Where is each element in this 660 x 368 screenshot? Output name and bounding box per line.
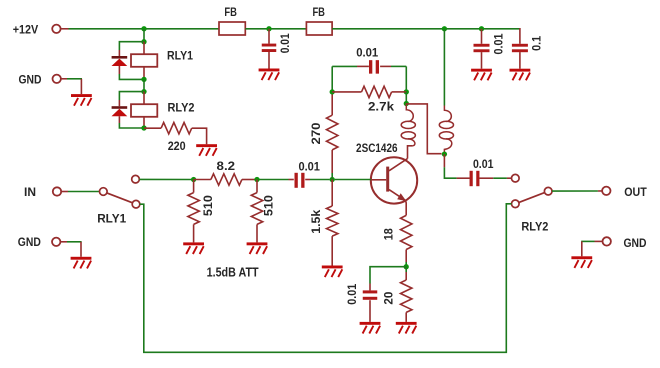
- wire rail right section: [332, 28, 520, 30]
- relay coil RLY1: [131, 54, 157, 67]
- ground C1: [259, 69, 280, 81]
- wire R8 lead top: [405, 272, 407, 280]
- wire emitter node: [405, 262, 407, 267]
- wire R6 lead right: [392, 91, 407, 93]
- ground GND top: [71, 94, 92, 106]
- svg-text:510: 510: [262, 195, 276, 216]
- wire C2 lead top: [481, 29, 483, 44]
- node OUT terminal: [602, 187, 610, 195]
- svg-text:OUT: OUT: [624, 185, 647, 199]
- resistor R3 510: [188, 193, 199, 225]
- relay switch RLY1 arm: [107, 193, 133, 203]
- wire RLY1 coil pin top: [143, 42, 145, 55]
- wire R9 lead top: [331, 180, 333, 207]
- resistor R5 270: [327, 115, 338, 150]
- wire C7 lead left: [457, 177, 470, 179]
- wire C6 lead top: [369, 284, 371, 291]
- wire D2 bottom pin: [118, 116, 120, 123]
- ground R1: [196, 144, 217, 156]
- svg-text:RLY1: RLY1: [167, 48, 193, 62]
- junction attenuator in: [191, 177, 196, 182]
- svg-text:0.01: 0.01: [278, 33, 292, 53]
- svg-text:2SC1426: 2SC1426: [356, 143, 398, 155]
- junction output tap Y: [442, 151, 447, 156]
- wire GND bl stub: [60, 241, 67, 243]
- resistor R8 20: [401, 280, 412, 312]
- capacitor C7 0.01: [470, 171, 480, 186]
- ferrite bead FB2: [306, 22, 332, 35]
- wire tap Y down red: [443, 154, 445, 167]
- svg-text:0.01: 0.01: [492, 33, 506, 54]
- svg-text:GND: GND: [18, 235, 41, 249]
- wire feedback left rail: [331, 66, 333, 92]
- wire C7 lead right: [479, 177, 493, 179]
- junction feedback right: [404, 89, 409, 94]
- svg-text:RLY2: RLY2: [521, 220, 548, 234]
- wire D2 bottom branch: [119, 123, 144, 128]
- inductor L2: [439, 106, 453, 155]
- svg-text:1.5k: 1.5k: [309, 209, 323, 233]
- relay switch RLY1 contact bypass: [132, 200, 140, 208]
- ground C3: [510, 69, 531, 81]
- wire RLY1-RLY2: [143, 79, 145, 91]
- wire GND top drop: [80, 79, 82, 94]
- wire C2 lead bottom: [481, 52, 483, 69]
- capacitor C2 0.01: [474, 44, 490, 52]
- resistor R6 2.7k: [362, 86, 392, 97]
- wire feedback right rail: [405, 66, 407, 92]
- ground C2: [471, 69, 492, 81]
- junction rail/choke: [442, 26, 447, 31]
- junction emitter node: [404, 264, 409, 269]
- wire feedback top right: [391, 65, 406, 67]
- svg-text:RLY2: RLY2: [168, 100, 195, 114]
- wire tap Y down green: [444, 167, 456, 178]
- junction bypass cap C1: [266, 26, 271, 31]
- diode D1: [112, 56, 128, 66]
- svg-text:220: 220: [168, 139, 186, 153]
- node GND terminal top: [53, 75, 61, 83]
- node IN terminal: [53, 187, 61, 195]
- svg-text:2.7k: 2.7k: [368, 99, 394, 113]
- wire collector lead: [408, 146, 413, 159]
- svg-text:0.1: 0.1: [530, 36, 544, 51]
- wire D2 anode pin: [118, 100, 120, 106]
- wire D1 top branch: [119, 42, 144, 50]
- svg-text:20: 20: [381, 291, 395, 304]
- junction RLY2 bottom: [141, 125, 146, 130]
- wire GND top: [67, 78, 82, 80]
- wire GND bl drop: [80, 242, 82, 257]
- wire R4 lead bottom: [256, 224, 258, 242]
- relay switch RLY2 arm: [519, 193, 545, 203]
- wire C4 lead right: [305, 179, 310, 181]
- ground GND bl: [71, 257, 92, 269]
- wire emitter node down: [405, 267, 407, 272]
- ferrite bead FB1: [219, 22, 245, 35]
- relay switch RLY2 contact bypass: [512, 200, 520, 208]
- node +12V terminal: [52, 25, 60, 33]
- wire OUT stub: [598, 190, 602, 192]
- relay switch RLY2 pole: [544, 187, 552, 195]
- wire rail to L2: [443, 29, 445, 106]
- wire +12V rail: [69, 28, 220, 30]
- junction RLY1 bottom: [141, 77, 146, 82]
- wire C5 lead left: [357, 65, 369, 67]
- capacitor C5 0.01: [369, 60, 379, 74]
- wire GND right drop: [581, 241, 583, 256]
- wire GND top stub: [61, 78, 67, 80]
- node GND terminal right: [603, 237, 611, 245]
- wire C5 lead right: [380, 65, 391, 67]
- wire rail FB1-FB2: [245, 28, 306, 30]
- wire C3 lead top: [519, 28, 521, 44]
- junction feedback left: [330, 89, 335, 94]
- svg-text:18: 18: [381, 228, 395, 240]
- wire base node up: [331, 173, 333, 180]
- wire GND right: [581, 240, 594, 242]
- wire pole to OUT: [552, 190, 598, 192]
- svg-text:IN: IN: [24, 185, 36, 199]
- wire R5 lead bottom: [331, 92, 333, 115]
- ground R9: [322, 266, 343, 278]
- transistor Q1 2SC1426: [371, 157, 417, 203]
- junction RLY1 top: [141, 39, 146, 44]
- svg-text:FB: FB: [312, 5, 325, 19]
- wire RLY1 coil pin bottom: [143, 67, 145, 80]
- wire contact stub: [507, 177, 512, 179]
- wire C6 branch: [370, 267, 406, 284]
- wire attenuator to C4: [260, 179, 289, 181]
- ground R8: [396, 322, 417, 334]
- relay switch RLY2 contact amp: [512, 174, 520, 182]
- svg-text:FB: FB: [224, 5, 237, 19]
- wire GND bl: [67, 241, 82, 243]
- wire R1 lead left: [144, 127, 161, 129]
- wire C6 lead bottom: [369, 300, 371, 322]
- svg-text:8.2: 8.2: [217, 159, 236, 173]
- wire emitter lead: [405, 201, 408, 216]
- node GND terminal bottom-left: [52, 238, 60, 246]
- junction rail/C2: [479, 26, 484, 31]
- capacitor C6 0.01: [363, 290, 378, 299]
- svg-text:+12V: +12V: [13, 23, 39, 37]
- ground R3: [183, 242, 204, 254]
- svg-text:1.5dB ATT: 1.5dB ATT: [207, 265, 259, 280]
- wire IN to pole: [68, 191, 100, 193]
- svg-text:0.01: 0.01: [473, 157, 494, 171]
- wire R4 lead top: [256, 180, 258, 193]
- resistor R4 510: [251, 193, 262, 225]
- junction attenuator out: [254, 177, 259, 182]
- junction rail/relays: [141, 26, 146, 31]
- wire D1 bottom branch: [119, 74, 144, 79]
- resistor R1 220: [161, 123, 192, 134]
- wire D1 anode pin: [118, 50, 120, 56]
- wire R9 lead bottom: [331, 236, 333, 265]
- wire +12V stub: [61, 28, 69, 30]
- wire R6 lead left: [332, 91, 361, 93]
- wire R3 lead top: [193, 180, 195, 193]
- wire R3 lead bottom: [193, 224, 195, 242]
- wire RLY2 coil pin top: [143, 92, 145, 105]
- resistor R9 1.5k: [327, 206, 338, 236]
- wire C3 lead bottom: [519, 52, 521, 69]
- wire relay feed: [143, 29, 145, 42]
- junction RLY2 top: [141, 89, 146, 94]
- wire C4 to base node: [310, 179, 330, 181]
- wire C1 lead top: [268, 29, 270, 44]
- wire choke link: [406, 104, 441, 154]
- wire contact to attenuator: [139, 178, 193, 180]
- wire D1 bottom pin: [118, 66, 120, 74]
- svg-text:0.01: 0.01: [356, 45, 378, 59]
- relay switch RLY1 pole: [100, 188, 108, 196]
- ground R4: [247, 242, 268, 254]
- wire RLY2 coil pin bottom: [143, 117, 145, 128]
- resistor R2 8.2: [211, 174, 242, 185]
- capacitor C4 0.01: [295, 173, 305, 188]
- junction base node: [330, 177, 335, 182]
- wire C1 lead bottom: [268, 52, 270, 69]
- wire bypass line: [140, 204, 512, 352]
- inductor L1: [401, 104, 415, 146]
- wire C4 lead left: [289, 179, 294, 181]
- wire R2 lead right: [242, 179, 257, 181]
- wire GND right stub: [595, 240, 603, 242]
- svg-text:GND: GND: [19, 73, 42, 87]
- capacitor C3 0.1: [512, 44, 528, 52]
- wire R7 lead bottom: [405, 250, 407, 263]
- svg-text:0.01: 0.01: [298, 160, 320, 174]
- wire feedback top left: [332, 65, 357, 67]
- ground C6: [360, 322, 381, 334]
- wire C7 to contact: [493, 177, 507, 179]
- wire R2 lead left: [194, 179, 211, 181]
- capacitor C1 0.01: [262, 44, 277, 52]
- resistor R7 18: [401, 215, 412, 249]
- svg-text:0.01: 0.01: [345, 284, 359, 305]
- wire D2 top branch: [119, 92, 144, 100]
- relay coil RLY2: [131, 104, 157, 117]
- wire base lead: [335, 179, 371, 181]
- wire R5 lead to base: [331, 150, 333, 173]
- svg-text:510: 510: [201, 195, 215, 216]
- svg-text:270: 270: [309, 122, 323, 144]
- junction choke tap X: [404, 101, 409, 106]
- ground GND right: [571, 256, 592, 268]
- svg-text:GND: GND: [624, 236, 647, 250]
- relay switch RLY1 contact amp: [132, 175, 140, 183]
- wire R8 lead bottom: [405, 312, 407, 322]
- wire IN stub: [61, 191, 68, 193]
- svg-text:RLY1: RLY1: [97, 212, 126, 226]
- wire collector node: [405, 92, 407, 104]
- wire R1 to ground: [192, 128, 207, 144]
- diode D2: [112, 106, 128, 116]
